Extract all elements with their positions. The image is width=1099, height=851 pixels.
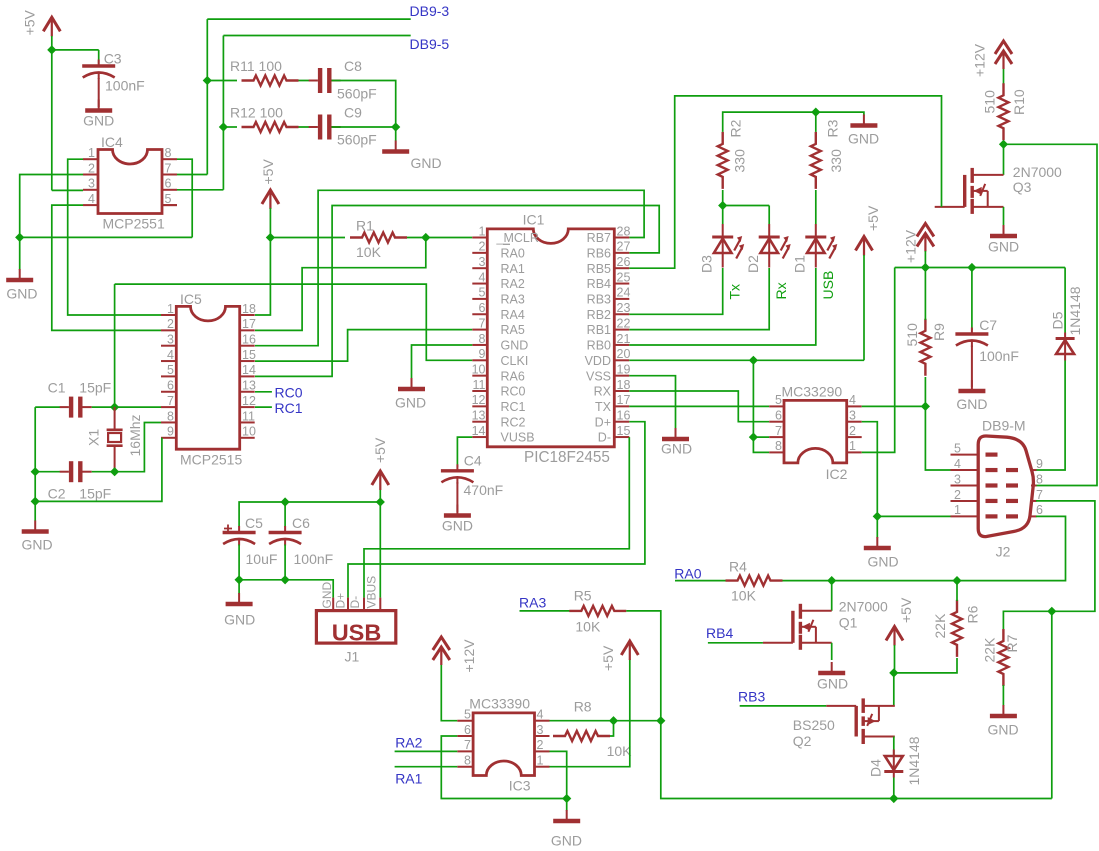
svg-text:J2: J2 bbox=[996, 544, 1011, 560]
svg-text:10K: 10K bbox=[575, 619, 601, 635]
power +12V (R10) bbox=[995, 41, 1012, 69]
svg-text:+5V: +5V bbox=[260, 159, 276, 185]
svg-text:2: 2 bbox=[479, 240, 486, 254]
pin stubs IC5 right bbox=[240, 314, 255, 316]
svg-text:3: 3 bbox=[954, 472, 961, 486]
svg-text:RA1: RA1 bbox=[501, 262, 525, 276]
junction IC2 pin7 branch bbox=[749, 433, 758, 442]
pin stubs J1 bbox=[332, 598, 334, 611]
svg-text:C4: C4 bbox=[464, 453, 482, 469]
svg-text:RB2: RB2 bbox=[587, 308, 611, 322]
svg-text:IC4: IC4 bbox=[101, 134, 123, 150]
wire R11 to C8 bbox=[299, 80, 318, 82]
wire to DB9 pin1 bbox=[877, 515, 950, 517]
svg-text:12: 12 bbox=[472, 393, 486, 407]
svg-text:3: 3 bbox=[88, 177, 95, 191]
wire R9 to node bbox=[924, 377, 926, 406]
svg-text:2N7000: 2N7000 bbox=[1013, 164, 1062, 180]
svg-text:GND: GND bbox=[224, 612, 255, 628]
wire DB9-5 vertical to IC4 pin6 bbox=[222, 36, 224, 190]
svg-text:C7: C7 bbox=[979, 317, 997, 333]
svg-text:R5: R5 bbox=[574, 588, 592, 604]
svg-text:7: 7 bbox=[165, 161, 172, 175]
pin stubs IC2 left bbox=[769, 405, 784, 407]
resistor R7 bbox=[998, 629, 1008, 686]
wire net DB9-3 bbox=[207, 18, 410, 20]
wire R5 to bottom net bbox=[626, 611, 1052, 799]
capacitor C9 bbox=[309, 115, 341, 140]
svg-text:10K: 10K bbox=[607, 743, 633, 759]
svg-text:6: 6 bbox=[479, 301, 486, 315]
svg-text:2: 2 bbox=[537, 738, 544, 752]
svg-text:RC2: RC2 bbox=[501, 415, 526, 429]
svg-text:RB3: RB3 bbox=[738, 689, 765, 705]
junction GND rail left bbox=[31, 497, 40, 506]
svg-text:2N7000: 2N7000 bbox=[839, 599, 888, 615]
junction DB9-5 / R12 bbox=[219, 122, 228, 131]
svg-text:GND: GND bbox=[320, 582, 334, 609]
wire IC1 pin22 to LED D2 bbox=[629, 268, 769, 330]
svg-text:C3: C3 bbox=[104, 51, 122, 67]
svg-text:6: 6 bbox=[1036, 503, 1043, 517]
wire IC3 pin6 to GND net bbox=[441, 736, 566, 799]
svg-text:GND: GND bbox=[956, 396, 987, 412]
junction R10 / Q3 / DB9 pin8 net bbox=[999, 140, 1008, 149]
junction DB9 pin1 / GND bbox=[873, 512, 882, 521]
svg-text:18: 18 bbox=[617, 378, 631, 392]
svg-text:GND: GND bbox=[848, 131, 879, 147]
svg-text:+5V: +5V bbox=[22, 9, 38, 35]
capacitor C3 bbox=[82, 60, 115, 80]
svg-text:5: 5 bbox=[167, 363, 174, 377]
junction +5V / C3 bbox=[47, 45, 56, 54]
wire R6 top lead bbox=[956, 581, 958, 601]
svg-text:RA1: RA1 bbox=[395, 771, 422, 787]
svg-text:GND: GND bbox=[867, 554, 898, 570]
junction C1 / X1 / IC5 pin7 bbox=[110, 403, 119, 412]
svg-text:J1: J1 bbox=[345, 649, 360, 665]
svg-text:R3: R3 bbox=[825, 119, 841, 137]
svg-text:7: 7 bbox=[464, 738, 471, 752]
svg-text:13: 13 bbox=[242, 379, 256, 393]
wire VDD branch to IC2 pins 7/8 bbox=[753, 360, 769, 452]
connector J1 USB body bbox=[316, 611, 395, 644]
svg-text:VSS: VSS bbox=[586, 369, 611, 383]
svg-text:6: 6 bbox=[167, 379, 174, 393]
svg-text:+12V: +12V bbox=[461, 639, 477, 673]
wire D3 top to R2 bbox=[722, 190, 724, 224]
wire node to GND symbol bbox=[19, 237, 21, 270]
wire +12V stem to R10 bbox=[1003, 69, 1005, 84]
wire IC1 pin8 to GND bbox=[412, 345, 473, 379]
wire junction to R12 bbox=[223, 126, 237, 128]
svg-text:11: 11 bbox=[242, 409, 255, 423]
connector J2 DB9-M body bbox=[978, 436, 1033, 537]
wire IC1 pin17 TX to IC2 pin5 bbox=[629, 405, 769, 407]
wire junction to R1 bbox=[270, 237, 345, 239]
wire IC5 pin16 to IC1 pin28 bbox=[255, 190, 644, 345]
pin stubs IC4 right bbox=[162, 158, 177, 160]
resistor R5 bbox=[569, 606, 626, 616]
junction R1 / MCLR net bbox=[421, 233, 430, 242]
svg-text:13: 13 bbox=[472, 409, 486, 423]
wire RA2 to IC3 pin7 bbox=[395, 750, 458, 752]
wire RB4 to Q1 gate bbox=[708, 642, 763, 644]
wire IC3 pin4 row bbox=[550, 720, 661, 722]
junction IC3 GND node bbox=[562, 794, 571, 803]
wire junction to R7 bbox=[1003, 611, 1051, 630]
svg-text:9: 9 bbox=[1036, 457, 1043, 471]
wire RA0 to R4 bbox=[675, 580, 726, 582]
svg-text:MC33290: MC33290 bbox=[782, 384, 843, 400]
svg-text:C8: C8 bbox=[344, 58, 362, 74]
svg-text:8: 8 bbox=[464, 754, 471, 768]
LED D2 bbox=[759, 224, 791, 268]
power +5V (IC3 pin1) bbox=[621, 641, 638, 660]
svg-text:22K: 22K bbox=[982, 637, 998, 663]
resistor R12 bbox=[242, 122, 299, 132]
wire node to GND bbox=[395, 127, 397, 141]
svg-text:15: 15 bbox=[617, 424, 631, 438]
junction VDD / IC2 feed bbox=[749, 356, 758, 365]
svg-text:10K: 10K bbox=[731, 588, 757, 604]
power +5V (VDD) bbox=[856, 237, 873, 256]
svg-text:RX: RX bbox=[594, 385, 612, 399]
wire net DB9-5 bbox=[223, 35, 410, 37]
junction IC4 GND node bbox=[15, 233, 24, 242]
power +12V (rail) bbox=[917, 224, 934, 252]
svg-text:RA2: RA2 bbox=[395, 735, 422, 751]
svg-text:C5: C5 bbox=[245, 515, 263, 531]
wire junction to R11 bbox=[207, 80, 237, 82]
svg-text:MCP2515: MCP2515 bbox=[180, 452, 242, 468]
wire C5/C6 bottom rail to USB GND pin bbox=[239, 545, 333, 598]
wire IC1 pin26 to Q3 gate bbox=[629, 96, 941, 268]
svg-text:D+: D+ bbox=[334, 593, 348, 609]
svg-text:GND: GND bbox=[551, 833, 582, 849]
svg-text:9: 9 bbox=[167, 425, 174, 439]
svg-text:GND: GND bbox=[501, 339, 529, 353]
wire IC1 pin18 RX to IC2 pin6 bbox=[629, 391, 769, 422]
wire node to GND bbox=[566, 799, 568, 812]
wire +5V down to IC4 pin3 bbox=[51, 50, 53, 191]
svg-text:27: 27 bbox=[617, 240, 631, 254]
wire C1 to IC5 pin7 bbox=[92, 406, 161, 408]
wire node to Q1 drain bbox=[831, 581, 833, 611]
junction R8 / IC3 pin4 bbox=[609, 716, 618, 725]
svg-text:CLKI: CLKI bbox=[501, 354, 529, 368]
svg-text:8: 8 bbox=[1036, 472, 1043, 486]
svg-text:17: 17 bbox=[617, 393, 631, 407]
wire R1 to IC1 pin1 bbox=[407, 237, 472, 239]
svg-text:R6: R6 bbox=[965, 605, 981, 623]
svg-text:4: 4 bbox=[537, 708, 544, 722]
svg-text:4: 4 bbox=[479, 270, 486, 284]
resistor R11 bbox=[242, 76, 299, 86]
wire rail to C7 bbox=[971, 268, 973, 331]
transistor Q1 2N7000 bbox=[763, 604, 832, 650]
svg-text:D+: D+ bbox=[595, 415, 611, 429]
wire IC5 pin12 RC1 bbox=[255, 406, 272, 408]
wire +12V stem bbox=[924, 251, 926, 268]
wire IC1 pin23 to LED D3 bbox=[629, 268, 722, 314]
pin stubs J2 right bbox=[1031, 469, 1037, 471]
svg-text:3: 3 bbox=[537, 723, 544, 737]
svg-text:4: 4 bbox=[88, 192, 95, 206]
svg-text:Rx: Rx bbox=[773, 282, 789, 299]
wire IC4 pin2 to GND junction bbox=[20, 175, 83, 238]
IC U IC1 PIC18F2455 body bbox=[487, 229, 614, 447]
capacitor C7 bbox=[955, 328, 988, 348]
wire C8 to C9/GND node bbox=[332, 81, 396, 128]
wire +5V stem to VDD net bbox=[863, 255, 865, 360]
wire R2/R3 top rail to GND bbox=[723, 112, 864, 132]
svg-text:3: 3 bbox=[479, 255, 486, 269]
svg-text:2: 2 bbox=[167, 317, 174, 331]
svg-text:22: 22 bbox=[617, 316, 631, 330]
resistor R6 bbox=[952, 600, 962, 657]
wire IC4 pin1 to IC5 pin1 bbox=[68, 159, 161, 315]
junction R3 / rail bbox=[811, 108, 820, 117]
svg-text:3: 3 bbox=[167, 333, 174, 347]
wire to IC2 pin7 bbox=[753, 436, 769, 438]
svg-text:14: 14 bbox=[242, 363, 256, 377]
svg-text:5: 5 bbox=[479, 286, 486, 300]
wire IC2 pin4 to R9 node bbox=[862, 405, 926, 407]
capacitor C8 bbox=[309, 68, 341, 93]
svg-text:GND: GND bbox=[442, 518, 473, 534]
wire C1 row bbox=[35, 406, 60, 408]
svg-text:510: 510 bbox=[982, 90, 998, 114]
ground GND (C8/C9) bbox=[382, 149, 409, 154]
wire D4 to bottom net bbox=[893, 778, 895, 799]
svg-text:3: 3 bbox=[849, 409, 856, 423]
svg-text:RA3: RA3 bbox=[519, 595, 546, 611]
svg-text:+12V: +12V bbox=[972, 43, 988, 77]
svg-text:28: 28 bbox=[617, 224, 631, 238]
wire crystal node vertical bbox=[114, 284, 116, 407]
wire R8 to pin4 row bbox=[610, 721, 614, 736]
ground GND (IC1 pin19) bbox=[662, 437, 689, 442]
svg-text:470nF: 470nF bbox=[464, 482, 504, 498]
junction C2 left bbox=[31, 467, 40, 476]
svg-text:2: 2 bbox=[954, 488, 961, 502]
resistor R2 bbox=[718, 132, 728, 189]
svg-text:100nF: 100nF bbox=[294, 551, 334, 567]
pin stubs IC5 left bbox=[161, 314, 176, 316]
svg-text:GND: GND bbox=[987, 722, 1018, 738]
wire IC4 pin8 to GND row bbox=[177, 159, 192, 237]
svg-text:R11 100: R11 100 bbox=[230, 58, 282, 74]
wire IC5 pin9 to GND rail bbox=[35, 438, 162, 502]
wire +5V stem bbox=[379, 490, 381, 502]
svg-text:GND: GND bbox=[661, 441, 692, 457]
junction R4 / Q1 drain bbox=[827, 576, 836, 585]
capacitor C6 100nF bbox=[269, 526, 302, 546]
svg-text:100nF: 100nF bbox=[979, 348, 1019, 364]
svg-text:IC1: IC1 bbox=[523, 212, 545, 228]
wire MCLR net to IC5 pin17 bbox=[255, 238, 426, 331]
svg-text:1: 1 bbox=[537, 754, 544, 768]
wire Q1 source to GND bbox=[831, 643, 833, 660]
junction R9 / IC2 pin4 bbox=[921, 402, 930, 411]
junction R7 / DB9 pin7 net bbox=[1047, 607, 1056, 616]
svg-text:21: 21 bbox=[617, 332, 631, 346]
svg-text:20: 20 bbox=[617, 347, 631, 361]
svg-text:R4: R4 bbox=[729, 559, 747, 575]
svg-text:D4: D4 bbox=[868, 759, 884, 777]
svg-text:R9: R9 bbox=[931, 323, 947, 341]
svg-text:Q1: Q1 bbox=[839, 615, 858, 631]
svg-text:7: 7 bbox=[167, 394, 174, 408]
wire R7 to GND bbox=[1002, 685, 1004, 706]
IC U IC4 MCP2551 body bbox=[98, 150, 162, 214]
svg-text:IC2: IC2 bbox=[826, 466, 848, 482]
svg-text:PIC18F2455: PIC18F2455 bbox=[524, 449, 610, 466]
crystal X1 bbox=[107, 407, 123, 472]
svg-text:26: 26 bbox=[617, 255, 631, 269]
wire R9 node to DB9 pin4 bbox=[925, 406, 950, 470]
svg-text:VDD: VDD bbox=[585, 354, 611, 368]
pin stubs IC1 right bbox=[614, 237, 629, 239]
LED D1 bbox=[805, 224, 837, 268]
transistor Q2 BS250 bbox=[826, 698, 895, 744]
junction DB9-3 / R11 bbox=[203, 76, 212, 85]
svg-text:14: 14 bbox=[472, 424, 486, 438]
capacitor C2 bbox=[60, 461, 92, 482]
svg-text:10: 10 bbox=[472, 362, 486, 376]
IC U IC2 MC33290 body bbox=[784, 400, 847, 463]
junction +5V / R6 / Q2 bbox=[889, 668, 898, 677]
ground GND (Q3) bbox=[990, 234, 1017, 239]
resistor R8 bbox=[553, 731, 610, 741]
transistor Q3 2N7000 bbox=[935, 168, 1004, 214]
wire left vertical to GND bbox=[34, 407, 36, 521]
junction D3 / D2 feed bbox=[718, 201, 727, 210]
svg-text:5: 5 bbox=[464, 708, 471, 722]
wire +5V to IC4 pin3 bbox=[52, 189, 83, 191]
svg-text:1N4148: 1N4148 bbox=[906, 736, 922, 785]
wire +5V stem to junction bbox=[51, 36, 53, 50]
svg-text:MC33390: MC33390 bbox=[469, 696, 530, 712]
svg-text:GND: GND bbox=[6, 286, 37, 302]
svg-text:GND: GND bbox=[817, 676, 848, 692]
wire IC5 pin14 to IC1 pin27 bbox=[255, 206, 659, 377]
svg-text:6: 6 bbox=[464, 723, 471, 737]
svg-text:RB5: RB5 bbox=[587, 262, 611, 276]
wire R12 to C9 bbox=[299, 126, 318, 128]
svg-text:560pF: 560pF bbox=[337, 132, 377, 148]
pin stubs IC3 right bbox=[535, 720, 550, 722]
svg-text:17: 17 bbox=[242, 317, 256, 331]
wire C9 to node bbox=[332, 126, 396, 128]
wire to D2 top bbox=[723, 205, 770, 207]
svg-text:D5: D5 bbox=[1050, 311, 1066, 329]
wire D5 to DB9 pin9 bbox=[1036, 361, 1065, 471]
ground GND (R2/R3) bbox=[850, 123, 877, 128]
junction R6 top bbox=[952, 576, 961, 585]
svg-text:DB9-3: DB9-3 bbox=[410, 3, 450, 19]
wire DB9-3 vertical to IC4 pin7 bbox=[206, 19, 208, 174]
wire junction to DB9 pin7 bbox=[1036, 501, 1095, 611]
svg-text:7: 7 bbox=[775, 424, 782, 438]
svg-text:7: 7 bbox=[479, 316, 486, 330]
svg-text:510: 510 bbox=[904, 323, 920, 347]
wire IC4 pin4 to IC5 pin2 bbox=[52, 205, 161, 330]
svg-text:C9: C9 bbox=[344, 105, 362, 121]
wire IC5 pin13 RC0 bbox=[255, 391, 272, 393]
wire IC4 pin6 to DB9-5 net bbox=[177, 189, 223, 191]
svg-text:330: 330 bbox=[828, 149, 844, 173]
svg-text:9: 9 bbox=[479, 347, 486, 361]
svg-text:1: 1 bbox=[88, 146, 95, 160]
ground GND (C5) bbox=[226, 602, 253, 607]
svg-text:RB1: RB1 bbox=[587, 323, 611, 337]
wire down to C3 bbox=[98, 50, 100, 64]
junction VBUS / +5V bbox=[376, 497, 385, 506]
svg-text:1N4148: 1N4148 bbox=[1067, 286, 1083, 335]
svg-text:22K: 22K bbox=[932, 613, 948, 639]
svg-text:+5V: +5V bbox=[865, 205, 881, 231]
wire R4 to R6 top / DB9 pin6 bbox=[783, 516, 1066, 580]
svg-text:2: 2 bbox=[88, 161, 95, 175]
svg-text:+12V: +12V bbox=[903, 229, 919, 263]
svg-text:C1: C1 bbox=[48, 380, 66, 396]
svg-text:D1: D1 bbox=[792, 255, 808, 273]
wire rail to C6 bbox=[284, 502, 286, 527]
wire R3 top to rail bbox=[815, 112, 817, 132]
wire D2 top stub bbox=[768, 206, 770, 225]
svg-text:USB: USB bbox=[332, 620, 382, 646]
wire IC1 pin14 to C4 bbox=[457, 437, 472, 467]
svg-text:GND: GND bbox=[988, 239, 1019, 255]
svg-text:15: 15 bbox=[242, 348, 256, 362]
svg-text:330: 330 bbox=[732, 149, 748, 173]
svg-text:DB9-M: DB9-M bbox=[982, 418, 1026, 434]
svg-text:560pF: 560pF bbox=[337, 86, 377, 102]
wire IC1 pin15 D- to USB bbox=[364, 437, 629, 597]
svg-text:R7: R7 bbox=[1004, 634, 1020, 652]
svg-text:IC5: IC5 bbox=[180, 291, 202, 307]
junction X1 bottom / C2 bbox=[110, 467, 119, 476]
resistor R4 bbox=[726, 576, 783, 586]
svg-text:RA0: RA0 bbox=[501, 246, 525, 260]
svg-text:7: 7 bbox=[1036, 488, 1043, 502]
svg-text:R8: R8 bbox=[574, 699, 592, 715]
wire R10 to Q3 drain bbox=[1003, 141, 1005, 175]
power +5V (Q2) bbox=[886, 627, 903, 646]
svg-text:RB7: RB7 bbox=[587, 231, 611, 245]
power +5V (top-left) bbox=[43, 17, 60, 36]
svg-text:10K: 10K bbox=[356, 244, 382, 260]
svg-text:VUSB: VUSB bbox=[501, 431, 535, 445]
resistor R9 bbox=[920, 319, 930, 376]
wire +5V stem bbox=[894, 645, 896, 673]
svg-text:8: 8 bbox=[479, 332, 486, 346]
wire IC1 pin21 to LED D1 bbox=[629, 268, 816, 345]
svg-text:10uF: 10uF bbox=[246, 551, 278, 567]
svg-text:2: 2 bbox=[849, 424, 856, 438]
wire IC5 pin15 to IC1 pin7 bbox=[255, 330, 472, 362]
svg-text:25: 25 bbox=[617, 270, 631, 284]
wire VBUS vertical bbox=[379, 502, 381, 598]
svg-text:MCP2551: MCP2551 bbox=[103, 216, 165, 232]
wire C2 row bbox=[35, 471, 60, 473]
svg-text:8: 8 bbox=[165, 146, 172, 160]
ground GND (R7) bbox=[990, 714, 1017, 719]
resistor R1 bbox=[350, 233, 407, 243]
wire IC1 pin16 D+ to USB bbox=[348, 422, 645, 598]
